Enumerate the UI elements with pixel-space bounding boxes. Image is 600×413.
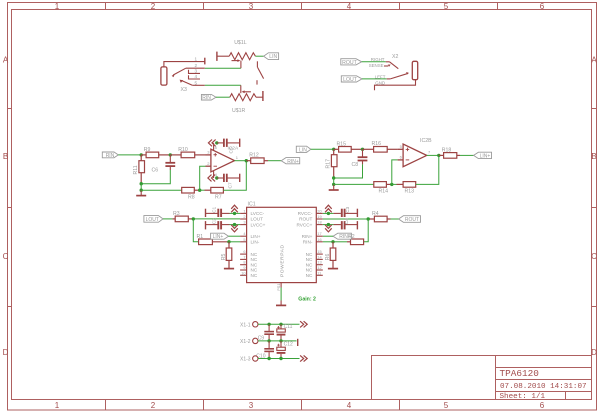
- svg-text:13: 13: [317, 260, 321, 265]
- svg-text:LIN+: LIN+: [213, 234, 224, 240]
- wire X1-3 rail: [258, 358, 300, 360]
- net flag LOUT: [341, 76, 362, 83]
- supply arrow down (left of IC1): [231, 225, 238, 232]
- svg-text:R1: R1: [197, 234, 204, 240]
- IC1 right pin labels: [296, 211, 313, 278]
- X2 gnd wire: [375, 80, 416, 91]
- wire C2 to pin3: [230, 224, 241, 226]
- svg-text:2: 2: [151, 401, 156, 410]
- pad X1-1: [240, 322, 258, 329]
- svg-text:ROUT: ROUT: [299, 217, 312, 222]
- capacitor C1: [206, 209, 230, 217]
- svg-text:C5: C5: [229, 147, 235, 153]
- svg-text:R12: R12: [249, 153, 259, 159]
- supply arrow right (X1-3): [300, 355, 307, 361]
- svg-text:R14: R14: [379, 188, 389, 194]
- node junction feedback left: [140, 189, 143, 192]
- supply arrow above IC2A: [208, 140, 215, 147]
- wire LOUT to X2: [362, 78, 387, 80]
- svg-text:5: 5: [444, 401, 449, 410]
- resistor R3: [172, 216, 193, 222]
- wire RIN to R9: [118, 154, 141, 156]
- svg-text:LOUT: LOUT: [343, 77, 358, 83]
- wire op-amp output: [235, 160, 247, 162]
- svg-text:3: 3: [249, 2, 254, 11]
- svg-text:RIN+: RIN+: [302, 234, 313, 239]
- svg-text:4: 4: [347, 401, 352, 410]
- svg-text:R9: R9: [144, 147, 151, 153]
- svg-text:R11: R11: [133, 165, 139, 174]
- net flag RIN+ (row B output): [281, 158, 300, 165]
- resistor R9: [141, 152, 170, 158]
- svg-text:C2: C2: [211, 218, 216, 224]
- node junction R15/R17: [332, 148, 335, 151]
- supply arrow down (right of IC1): [325, 225, 332, 232]
- svg-text:X1-3: X1-3: [240, 357, 251, 363]
- capacitor C11 polarized: [277, 324, 286, 341]
- svg-text:R3: R3: [173, 211, 180, 217]
- node junction at R9/R11: [140, 153, 143, 156]
- capacitor C12 polarized: [277, 341, 286, 359]
- wire ROUT to X2: [362, 61, 386, 63]
- net flag RIN: [201, 94, 216, 101]
- connector X2 left contact: [387, 72, 409, 79]
- wire C6 bottom to R11 bottom: [141, 170, 170, 184]
- wire R4 to ROUT flag: [391, 218, 399, 220]
- wire R18 to LIN+ flag: [460, 154, 474, 156]
- net flag LIN+ (into IC1): [211, 233, 229, 240]
- net flag ROUT (row C): [399, 216, 421, 224]
- resistor R12: [246, 158, 268, 164]
- node junction R17 bottom: [332, 176, 335, 179]
- svg-text:R2: R2: [348, 234, 355, 240]
- frame column numbers bottom: [55, 401, 545, 410]
- node junction pin3: [233, 223, 236, 226]
- svg-text:17: 17: [317, 231, 321, 236]
- wire inverting input vertical: [200, 166, 206, 190]
- svg-text:6: 6: [243, 249, 245, 254]
- svg-text:B: B: [3, 152, 8, 161]
- resistor R11: [139, 155, 145, 184]
- node junction R1/R5: [227, 240, 230, 243]
- IC1 body: [247, 207, 317, 282]
- svg-text:RIN+: RIN+: [287, 159, 299, 165]
- net flag RIN+ (into IC1): [333, 233, 351, 240]
- wire LOUT flag to R3: [163, 218, 172, 220]
- wire RIN flag to U$1R: [216, 96, 230, 98]
- resistor R2: [347, 239, 364, 245]
- svg-text:R18: R18: [442, 147, 452, 153]
- wire R13 to output node: [416, 155, 439, 184]
- net flag LIN (row B input): [296, 146, 311, 153]
- wire down to R1: [193, 219, 198, 242]
- capacitor C4 terminator bar: [356, 221, 358, 229]
- svg-text:X1-2: X1-2: [240, 339, 251, 345]
- svg-text:NC: NC: [306, 273, 313, 278]
- capacitor C2: [206, 221, 230, 229]
- connector X3 pin 3 stub: [189, 70, 201, 74]
- svg-text:RIN: RIN: [106, 153, 115, 159]
- svg-text:POWERPAD: POWERPAD: [279, 244, 285, 277]
- IC1 powerpad pin: [280, 283, 282, 301]
- svg-text:07.08.2010 14:31:07: 07.08.2010 14:31:07: [500, 383, 587, 391]
- wire inverting input vertical (right): [392, 160, 398, 185]
- svg-text:LOUT: LOUT: [251, 217, 264, 222]
- connector X3 pin 1: [164, 58, 205, 67]
- svg-text:3: 3: [243, 220, 245, 225]
- svg-text:1: 1: [194, 57, 197, 62]
- node junction C8 top: [361, 148, 364, 151]
- svg-text:18: 18: [317, 220, 321, 225]
- supply arrow up (left of IC1): [231, 205, 238, 212]
- title text TPA6120: [500, 368, 587, 401]
- ground symbol (left circuit): [136, 190, 146, 195]
- node junction C9 bottom: [267, 339, 270, 342]
- capacitor C4: [333, 221, 357, 229]
- X3 switch contact segments: [257, 61, 264, 84]
- svg-text:3: 3: [194, 68, 197, 73]
- svg-text:C11: C11: [284, 324, 293, 330]
- svg-text:ROUT: ROUT: [342, 60, 358, 66]
- svg-text:U$1L: U$1L: [234, 40, 247, 46]
- frame column numbers top: [55, 2, 545, 11]
- node junction R11 bottom: [140, 182, 143, 185]
- wire feedback bottom: [141, 189, 182, 191]
- pad X1-2: [240, 338, 258, 345]
- svg-text:LVCC-: LVCC-: [251, 211, 265, 216]
- svg-text:7: 7: [243, 254, 245, 259]
- resistor R7: [205, 187, 224, 193]
- svg-text:C3: C3: [345, 206, 350, 212]
- svg-text:5: 5: [243, 237, 245, 242]
- node junction LOUT net: [192, 217, 195, 220]
- connector X2 body: [412, 61, 417, 79]
- svg-text:NC: NC: [251, 252, 258, 257]
- wire node to R13: [392, 183, 397, 185]
- svg-text:C: C: [591, 252, 597, 261]
- resistor R13: [397, 182, 416, 188]
- resistor R17: [331, 149, 337, 178]
- resistor R14: [374, 182, 392, 188]
- resistor R4: [368, 216, 390, 222]
- svg-text:9: 9: [243, 265, 245, 270]
- svg-text:U$1R: U$1R: [232, 108, 246, 114]
- node junction C9 top: [267, 323, 270, 326]
- capacitor C2 terminator bar: [205, 221, 207, 229]
- capacitor C1 terminator bar: [205, 209, 207, 217]
- svg-text:RVCC-: RVCC-: [298, 211, 313, 216]
- IC1 left pin labels: [251, 211, 266, 278]
- title block: [372, 356, 592, 400]
- svg-text:5: 5: [444, 2, 449, 11]
- potentiometer U$1R: [230, 85, 263, 101]
- svg-text:1: 1: [243, 208, 245, 213]
- svg-text:LVCC+: LVCC+: [251, 222, 266, 227]
- op-amp V+ pin stub: [213, 143, 215, 151]
- svg-text:R13: R13: [405, 189, 415, 195]
- svg-text:RIGHT: RIGHT: [371, 57, 385, 62]
- svg-text:LIN: LIN: [299, 147, 307, 153]
- svg-text:R10: R10: [178, 147, 188, 153]
- svg-text:6: 6: [540, 2, 545, 11]
- svg-text:R4: R4: [372, 211, 379, 217]
- net flag RIN (row B): [102, 152, 118, 159]
- node junction above IC2A: [215, 141, 218, 144]
- net flag LOUT (row C): [144, 216, 163, 224]
- node junction below IC2A: [215, 176, 218, 179]
- svg-text:4: 4: [194, 74, 197, 79]
- wire feedback bottom (right): [334, 183, 374, 185]
- node junction ROUT net: [367, 217, 370, 220]
- svg-text:B: B: [591, 152, 596, 161]
- wire pin19 to R4: [323, 218, 368, 220]
- svg-text:19: 19: [317, 214, 321, 219]
- wire down to gnd node: [140, 184, 142, 191]
- capacitor C9: [264, 324, 274, 341]
- node junction feedback left (right circuit): [332, 183, 335, 186]
- svg-text:ROUT: ROUT: [405, 217, 419, 223]
- svg-text:R8: R8: [188, 194, 195, 200]
- svg-text:X1-1: X1-1: [240, 323, 251, 329]
- capacitor C3: [333, 209, 357, 217]
- IC1 left pin stubs: [240, 213, 247, 275]
- wire X3 pin5 to U$1R wiper: [205, 84, 241, 86]
- svg-text:C12: C12: [284, 341, 293, 347]
- node junction C11 bottom: [279, 339, 282, 342]
- svg-text:NC: NC: [306, 268, 313, 273]
- net flag LIN+ (row B output): [474, 152, 492, 159]
- svg-text:R15: R15: [337, 141, 347, 147]
- svg-text:15: 15: [317, 249, 321, 254]
- wire down to R2: [364, 219, 369, 242]
- svg-text:RVCC+: RVCC+: [296, 222, 312, 227]
- wire node to R7: [200, 189, 205, 191]
- svg-text:C7: C7: [228, 182, 234, 188]
- capacitor C3 terminator bar: [356, 209, 358, 217]
- svg-text:2: 2: [243, 214, 245, 219]
- wire C3 to pin20: [323, 212, 334, 214]
- gnd terminator bar (X1-2): [297, 339, 299, 346]
- svg-text:NC: NC: [306, 262, 313, 267]
- resistor R10: [170, 152, 205, 158]
- svg-text:3: 3: [249, 401, 254, 410]
- svg-text:R6: R6: [325, 253, 331, 260]
- wire C1 to pin1: [230, 212, 241, 214]
- svg-text:NC: NC: [251, 257, 258, 262]
- op-amp IC2B: [398, 144, 427, 167]
- ground symbol (R5): [224, 268, 234, 270]
- node junction C11 top: [279, 323, 282, 326]
- connector X3 pin 4 stub: [189, 75, 201, 79]
- ground symbol (R6): [328, 268, 338, 270]
- svg-text:C4: C4: [344, 218, 349, 224]
- svg-text:NC: NC: [251, 273, 258, 278]
- IC1 left pin numbers: [241, 208, 246, 275]
- svg-text:IC2B: IC2B: [420, 138, 432, 144]
- svg-text:SENSE: SENSE: [369, 63, 384, 68]
- svg-text:LIN: LIN: [269, 54, 277, 60]
- capacitor C7: [217, 174, 240, 182]
- wire R12 to RIN+ flag: [268, 160, 281, 162]
- node junction C12 bottom: [279, 357, 282, 360]
- op-amp V- pin stub: [213, 171, 215, 178]
- svg-text:X3: X3: [181, 87, 187, 93]
- wire C8 bottom to R17 bottom: [334, 164, 363, 178]
- svg-text:Gain: 2: Gain: 2: [298, 297, 316, 303]
- svg-text:A: A: [591, 56, 597, 65]
- resistor R18: [439, 153, 460, 159]
- wire X1-1 rail: [258, 323, 300, 325]
- pad X1-3: [240, 356, 258, 363]
- ground symbol (powerpad): [276, 301, 286, 306]
- svg-text:RIN-: RIN-: [303, 240, 313, 245]
- connector X2 right/sense contacts: [384, 62, 398, 69]
- frame row letters right: [591, 56, 597, 358]
- svg-text:NC: NC: [251, 262, 258, 267]
- IC1 right pin stubs: [316, 213, 323, 275]
- resistor R1: [199, 239, 229, 245]
- svg-text:Sheet: 1/1: Sheet: 1/1: [500, 393, 546, 401]
- node junction inverting input (right): [390, 183, 393, 186]
- svg-text:16: 16: [317, 237, 321, 242]
- wire R2 to pin16 node: [333, 241, 347, 243]
- svg-text:C1: C1: [211, 206, 216, 212]
- svg-text:R7: R7: [215, 194, 222, 200]
- svg-text:4: 4: [347, 2, 352, 11]
- resistor R16: [363, 147, 398, 153]
- node junction output (right): [437, 154, 440, 157]
- wire LIN+ flag to pin 4: [229, 235, 241, 237]
- wire R3 to IC1 LOUT pin: [193, 218, 240, 220]
- connector X3 pin 5 switch arm: [180, 80, 205, 86]
- resistor R6: [330, 242, 336, 268]
- svg-text:LEFT: LEFT: [375, 74, 386, 79]
- svg-text:D: D: [591, 348, 597, 357]
- capacitor C5: [217, 139, 240, 147]
- wire pin16 to R2: [323, 241, 333, 243]
- svg-text:LIN+: LIN+: [251, 234, 261, 239]
- capacitor C6: [165, 155, 175, 170]
- net flag LIN: [264, 53, 279, 60]
- supply arrow below IC2A: [208, 175, 215, 182]
- svg-text:NC: NC: [306, 252, 313, 257]
- svg-text:12: 12: [317, 265, 321, 270]
- svg-text:NC: NC: [251, 268, 258, 273]
- svg-text:5: 5: [194, 80, 197, 85]
- wire X1-2 rail: [258, 340, 297, 342]
- wire X3 pin2 to U$1L wiper: [205, 67, 241, 69]
- resistor R8: [182, 187, 200, 193]
- ground symbol (right circuit): [329, 184, 339, 190]
- svg-text:6: 6: [540, 401, 545, 410]
- resistor R5: [226, 242, 232, 268]
- svg-text:RIN: RIN: [202, 95, 211, 101]
- wire LIN to R15: [311, 148, 334, 150]
- node junction R2/R6: [331, 240, 334, 243]
- wire R1 node to pin 5: [229, 241, 240, 243]
- svg-text:D: D: [3, 348, 9, 357]
- potentiometer U$1L: [217, 52, 256, 69]
- node junction pin20: [327, 212, 330, 215]
- svg-text:1: 1: [55, 2, 60, 11]
- svg-text:11: 11: [317, 270, 321, 275]
- svg-text:1: 1: [55, 401, 60, 410]
- capacitor C10: [264, 341, 274, 359]
- supply arrow up (right of IC1): [325, 205, 332, 212]
- frame row letters left: [3, 56, 9, 358]
- svg-text:C8: C8: [352, 162, 359, 168]
- wire op-amp output (right): [427, 154, 439, 156]
- svg-text:C: C: [3, 252, 9, 261]
- IC1 right pin numbers: [317, 208, 322, 275]
- svg-text:2: 2: [151, 2, 156, 11]
- node junction output: [245, 159, 248, 162]
- wire C4 to pin18: [323, 224, 334, 226]
- svg-text:8: 8: [243, 260, 245, 265]
- svg-text:R17: R17: [326, 159, 332, 169]
- svg-text:R5: R5: [221, 253, 227, 260]
- wire U$1L to LIN flag: [255, 55, 263, 57]
- svg-text:LIN+: LIN+: [480, 154, 491, 160]
- wire down to gnd node: [333, 178, 335, 184]
- wire R7 to output node: [223, 161, 246, 191]
- wire pin17 to RIN+ flag: [323, 235, 333, 237]
- svg-text:TPA6120: TPA6120: [500, 368, 540, 379]
- node junction pin1: [233, 212, 236, 215]
- node junction at C6 top: [169, 153, 172, 156]
- op-amp IC2A: [206, 149, 235, 172]
- svg-text:A: A: [3, 56, 9, 65]
- svg-text:X2: X2: [392, 54, 398, 60]
- svg-text:IC1: IC1: [248, 201, 256, 207]
- supply arrow right (X1-1): [300, 321, 307, 327]
- svg-text:LOUT: LOUT: [146, 217, 159, 223]
- connector X3 pin 2 switch arm: [172, 68, 205, 77]
- svg-text:PS1: PS1: [276, 283, 281, 290]
- node junction C10 bottom: [267, 357, 270, 360]
- svg-text:C6: C6: [152, 168, 159, 174]
- node junction pin18: [327, 223, 330, 226]
- svg-text:NC: NC: [306, 257, 313, 262]
- connector X3 body: [161, 67, 167, 85]
- node junction inverting input: [198, 189, 201, 192]
- capacitor C8: [358, 149, 368, 164]
- resistor R15: [334, 147, 363, 153]
- svg-text:LIN-: LIN-: [251, 240, 260, 245]
- svg-text:R16: R16: [372, 141, 382, 147]
- net flag ROUT: [341, 59, 362, 66]
